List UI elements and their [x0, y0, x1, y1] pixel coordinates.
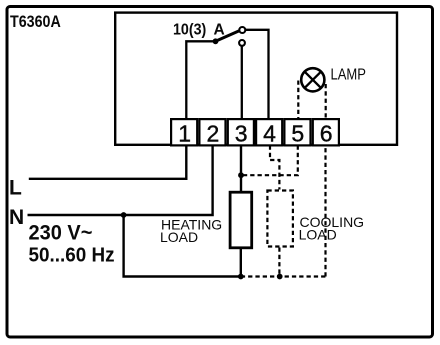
svg-text:N: N	[9, 206, 24, 229]
svg-text:2: 2	[207, 120, 220, 146]
svg-text:1: 1	[178, 120, 191, 146]
svg-text:3: 3	[235, 120, 248, 146]
svg-text:4: 4	[263, 120, 276, 146]
svg-text:230 V~: 230 V~	[29, 221, 93, 245]
svg-text:LOAD: LOAD	[160, 229, 198, 245]
svg-text:A: A	[214, 21, 225, 38]
svg-text:10(3): 10(3)	[173, 22, 206, 39]
svg-text:50...60 Hz: 50...60 Hz	[29, 244, 115, 267]
svg-text:LAMP: LAMP	[331, 66, 366, 83]
svg-text:6: 6	[320, 120, 333, 146]
svg-text:5: 5	[291, 120, 304, 146]
svg-text:LOAD: LOAD	[299, 227, 337, 243]
svg-text:T6360A: T6360A	[10, 13, 61, 31]
svg-text:L: L	[9, 177, 22, 200]
